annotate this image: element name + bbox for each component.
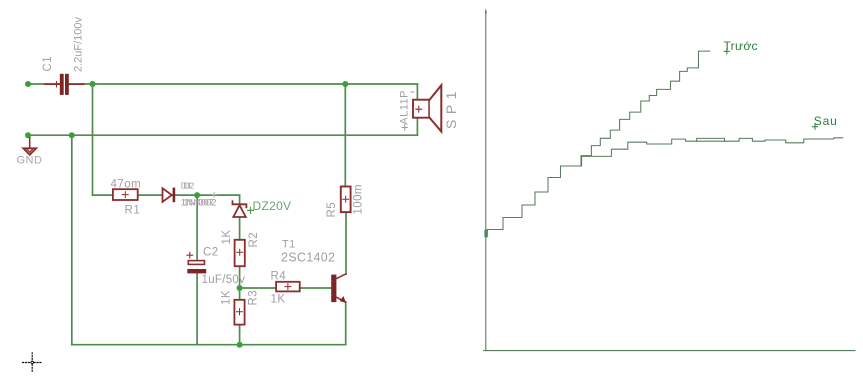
node green origin cross DZ <box>248 207 254 213</box>
origin crosshair marker <box>23 353 42 372</box>
node cross Truoc <box>724 49 729 54</box>
transistor T1 <box>331 274 346 303</box>
wire R5 from top rail <box>344 84 346 187</box>
node small origin cross <box>212 193 217 198</box>
capacitor C1 <box>45 74 84 96</box>
svg-text:1K: 1K <box>271 294 286 306</box>
label plus pin <box>402 125 407 130</box>
wire sau extra doubled segment <box>697 140 725 142</box>
wire R3 to bottom rail <box>239 325 241 345</box>
svg-text:C1: C1 <box>42 56 54 72</box>
svg-text:1K: 1K <box>221 290 233 305</box>
node junction C1 right <box>90 81 96 87</box>
trace start tick <box>484 230 487 238</box>
svg-text:R5: R5 <box>326 202 338 218</box>
resistor R2 <box>235 240 245 266</box>
resistor R5 <box>341 187 351 213</box>
resistor R3 <box>234 300 244 325</box>
wire R4 branch <box>240 287 332 289</box>
node dot top-left <box>25 81 31 87</box>
svg-text:D2: D2 <box>183 180 194 190</box>
axis vertical <box>485 10 487 351</box>
wire zener drop <box>239 195 241 240</box>
resistor R4 <box>276 282 300 292</box>
svg-text:100m: 100m <box>352 184 364 214</box>
svg-text:1N4002: 1N4002 <box>183 197 216 208</box>
node junction bottom rail R3 <box>237 342 243 348</box>
wire R1 branch horizontal <box>93 194 240 196</box>
svg-text:1uF/50v: 1uF/50v <box>202 274 246 286</box>
node cross Sau <box>812 124 817 129</box>
wire R2 to junction <box>239 266 241 300</box>
wire top rail net V+ <box>28 83 417 85</box>
wire second rail GND net <box>28 134 417 136</box>
svg-text:AL11P: AL11P <box>399 90 411 125</box>
label minus pin <box>411 91 414 93</box>
node junction R2/R3/R4 <box>237 285 243 291</box>
svg-text:R4: R4 <box>271 271 287 283</box>
wire from C1 junction down to R1 branch <box>92 84 94 195</box>
svg-text:2.2uF/100v: 2.2uF/100v <box>72 16 84 72</box>
svg-text:R1: R1 <box>125 205 141 217</box>
capacitor C2 <box>187 252 206 273</box>
wire R5 to collector <box>345 212 347 274</box>
svg-text:C2: C2 <box>203 247 219 259</box>
svg-text:T1: T1 <box>282 239 296 251</box>
diode zener DZ <box>233 201 247 217</box>
wire C2 vertical <box>196 195 198 345</box>
speaker SP1 <box>413 85 441 131</box>
svg-text:SP1: SP1 <box>443 86 459 129</box>
node junction rail2 left-loop <box>69 132 75 138</box>
axis horizontal <box>484 350 855 352</box>
svg-text:GND: GND <box>17 155 43 167</box>
wire emitter to bottom rail <box>345 302 347 345</box>
wire speaker vertical <box>416 84 418 135</box>
svg-text:Sau: Sau <box>814 114 838 128</box>
trace Truoc staircase <box>487 51 710 233</box>
svg-text:2SC1402: 2SC1402 <box>281 251 335 265</box>
node junction diode-out <box>194 192 200 198</box>
svg-text:R2: R2 <box>248 232 260 248</box>
node junction R5 top <box>342 81 348 87</box>
svg-text:R3: R3 <box>248 290 260 306</box>
wire bottom rail <box>72 344 346 346</box>
diode D1 <box>163 188 176 203</box>
svg-text:1K: 1K <box>221 229 233 244</box>
node dot rail2 left <box>25 132 31 138</box>
ground GND symbol <box>23 138 36 155</box>
resistor R1 <box>113 189 138 200</box>
svg-text:47om: 47om <box>111 179 142 191</box>
svg-text:DZ20V: DZ20V <box>253 199 292 213</box>
trace Sau staircase <box>582 138 843 166</box>
wire left loop vertical <box>71 135 73 345</box>
